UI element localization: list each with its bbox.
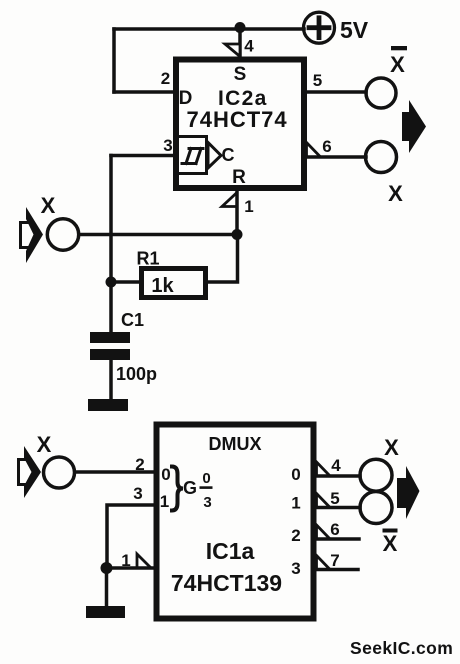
- input arrow X (top): [21, 207, 44, 263]
- output circle Xbar (bottom): [360, 492, 392, 524]
- label Xbar below circles: [383, 529, 398, 557]
- polarity triangle on pin 6: [307, 143, 321, 158]
- svg-text:4: 4: [244, 37, 254, 56]
- pin number 5 (IC2a): [313, 71, 322, 90]
- wire: R1 left lead: [111, 280, 141, 284]
- pin number 5 (IC1a): [330, 489, 339, 508]
- polarity triangle on pin 1: [222, 193, 237, 207]
- output circle Xbar: [366, 78, 396, 108]
- wire: to ground: [105, 568, 109, 607]
- label X above circles: [384, 435, 399, 460]
- hysteresis symbol: [182, 149, 203, 164]
- ground (C1): [88, 399, 128, 411]
- input circle (top X): [47, 219, 78, 250]
- output circle X (bottom): [360, 459, 392, 491]
- svg-text:4: 4: [331, 456, 341, 475]
- pin number 2 (IC1a): [135, 455, 144, 474]
- svg-text:3: 3: [291, 559, 300, 578]
- svg-text:IC1a: IC1a: [206, 538, 255, 564]
- svg-text:X: X: [390, 52, 405, 77]
- brace: [172, 467, 183, 511]
- select input 0: [161, 465, 170, 484]
- pin number 3 (IC2a C): [163, 136, 172, 155]
- resistor R1 label: [137, 249, 160, 269]
- wire: pin 1 vertical from R to X net: [235, 191, 239, 235]
- polarity triangle on pin 1 (IC1a enable): [137, 554, 151, 568]
- svg-text:1: 1: [160, 492, 169, 511]
- output label 3: [291, 559, 300, 578]
- wire: vertical clock net (pin3 - R1 - C1): [109, 156, 113, 334]
- svg-text:0: 0: [291, 465, 300, 484]
- svg-text:5: 5: [330, 489, 339, 508]
- svg-text:1k: 1k: [151, 275, 174, 297]
- IC body: IC2a 74HCT74 flip-flop box: [176, 60, 304, 189]
- svg-text:7: 7: [330, 551, 339, 570]
- svg-text:D: D: [179, 88, 193, 109]
- node: junction on 5V rail above pin 4: [235, 22, 246, 33]
- schmitt trigger box on clock input: [178, 137, 207, 174]
- output label 1: [291, 494, 300, 513]
- svg-text:1: 1: [244, 197, 253, 216]
- label X (below circle): [388, 181, 403, 206]
- svg-text:X: X: [37, 432, 52, 457]
- svg-text:S: S: [234, 64, 247, 85]
- label G: [183, 478, 197, 498]
- svg-text:0: 0: [202, 470, 210, 487]
- wire: X input to DMUX pin 2: [75, 470, 156, 474]
- label IC1a: [206, 538, 255, 564]
- wire: pin 3 select input: [107, 505, 156, 568]
- power supply +5V symbol: [304, 12, 335, 43]
- node: junction clock net / R1: [106, 277, 117, 288]
- pin number 6 (IC2a): [322, 137, 331, 156]
- capacitor C1 label: [121, 310, 144, 330]
- pin number 4 (IC1a): [331, 456, 341, 475]
- input circle (bottom X): [44, 457, 75, 488]
- output arrow (bottom): [397, 466, 420, 519]
- svg-text:R1: R1: [137, 249, 160, 269]
- svg-text:2: 2: [161, 69, 170, 88]
- polarity triangle on pin 4: [317, 462, 331, 476]
- svg-text:74HCT139: 74HCT139: [171, 570, 282, 596]
- polarity triangle on pin 7: [317, 556, 331, 570]
- svg-text:3: 3: [133, 484, 142, 503]
- label X (bottom input): [37, 432, 52, 457]
- polarity triangle on pin 4: [225, 44, 240, 57]
- capacitor C1 plates: [90, 332, 130, 360]
- polarity triangle on pin 6: [317, 525, 331, 539]
- svg-text:3: 3: [203, 494, 211, 511]
- output label 2: [291, 526, 300, 545]
- svg-text:74HCT74: 74HCT74: [187, 107, 288, 132]
- svg-text:2: 2: [135, 455, 144, 474]
- svg-text:R: R: [232, 167, 246, 188]
- pin number 1 (IC2a R): [244, 197, 253, 216]
- svg-text:X: X: [383, 531, 398, 556]
- label IC2a: [218, 87, 268, 110]
- label Xbar (top right): [390, 46, 407, 77]
- svg-text:X: X: [388, 181, 403, 206]
- input arrow X (bottom): [19, 446, 42, 498]
- pin number 4 (IC2a S): [244, 37, 254, 56]
- svg-text:6: 6: [322, 137, 331, 156]
- wire: output 1 (pin 5): [314, 506, 360, 510]
- resistor R1 body: [142, 269, 206, 298]
- wire: pin 6 output to X circle: [305, 155, 366, 159]
- wire: pin 1 enable to ground net: [107, 566, 156, 570]
- value 1k: [151, 275, 174, 297]
- pin number 2 (IC2a D): [161, 69, 170, 88]
- pin number 3 (IC1a): [133, 484, 142, 503]
- svg-text:X: X: [384, 435, 399, 460]
- wire: left vertical from rail to pin 2: [112, 29, 116, 92]
- IC body: IC1a 74HCT139 DMUX box: [157, 425, 314, 619]
- select input 1: [160, 492, 169, 511]
- fraction 0/3: [200, 470, 213, 511]
- svg-text:100p: 100p: [116, 364, 157, 384]
- wire: pin 5 output to Xbar circle: [305, 90, 366, 94]
- output circle X: [366, 142, 397, 173]
- polarity triangle on pin 5: [317, 494, 331, 508]
- label 74HCT139: [171, 570, 282, 596]
- output arrow (top): [402, 100, 426, 153]
- wire: output 2 (pin 6): [314, 537, 359, 541]
- svg-text:3: 3: [163, 136, 172, 155]
- dynamic clock triangle: [208, 143, 221, 169]
- wire: pin 3 into clock: [111, 154, 177, 158]
- pin name C: [222, 145, 235, 165]
- svg-text:DMUX: DMUX: [209, 434, 262, 454]
- svg-text:1: 1: [121, 551, 130, 570]
- pin number 6 (IC1a): [330, 520, 339, 539]
- svg-text:5V: 5V: [340, 17, 369, 43]
- svg-text:X: X: [41, 193, 56, 218]
- svg-text:5: 5: [313, 71, 322, 90]
- wire: output 0 (pin 4): [314, 474, 360, 478]
- svg-text:2: 2: [291, 526, 300, 545]
- wire: pin 2 into D input: [114, 90, 175, 94]
- label 5V: [340, 17, 369, 43]
- label DMUX: [209, 434, 262, 454]
- svg-text:1: 1: [291, 494, 300, 513]
- value 100p: [116, 364, 157, 384]
- label 74HCT74: [187, 107, 288, 132]
- wire: C1 to ground: [109, 360, 113, 400]
- svg-text:6: 6: [330, 520, 339, 539]
- pin number 1 (IC1a): [121, 551, 130, 570]
- pin number 7 (IC1a): [330, 551, 339, 570]
- node: junction pin3/pin1 ground net: [101, 562, 113, 574]
- svg-text:C1: C1: [121, 310, 144, 330]
- label X (top input): [41, 193, 56, 218]
- pin name S: [234, 64, 247, 85]
- wire: R1 right lead to X net: [206, 235, 238, 283]
- watermark SeekIC.com: [350, 638, 453, 658]
- svg-text:G: G: [183, 478, 197, 498]
- node: junction X / pin1 / R1: [232, 229, 243, 240]
- pin name D: [179, 88, 193, 109]
- svg-text:SeekIC.com: SeekIC.com: [350, 638, 453, 658]
- wire: X input to pin 1 node: [79, 233, 237, 237]
- wire: +5V rail horizontal: [114, 27, 304, 31]
- ground (IC1a): [86, 606, 125, 618]
- output label 0: [291, 465, 300, 484]
- wire: pin 4 vertical from rail to S input: [238, 29, 242, 58]
- svg-text:C: C: [222, 145, 235, 165]
- wire: output 3 (pin 7): [314, 568, 358, 572]
- svg-text:0: 0: [161, 465, 170, 484]
- pin name R: [232, 167, 246, 188]
